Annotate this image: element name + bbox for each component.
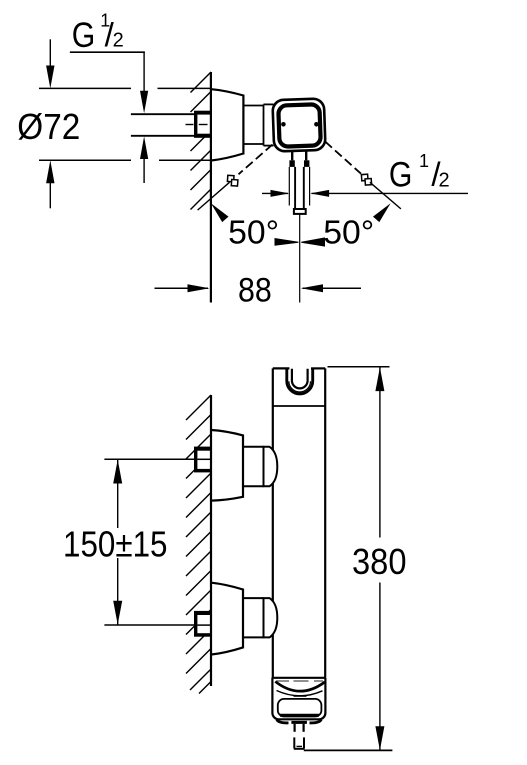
right angle arrowhead <box>373 203 391 222</box>
left hose connector symbol <box>227 175 238 186</box>
cap inner shell <box>278 699 322 717</box>
right swivel dashed line <box>325 142 361 174</box>
body neck (top view) <box>243 104 273 145</box>
upper connection cylinder <box>243 447 264 487</box>
lower union nut (side view) <box>194 611 211 637</box>
wall line (side view) <box>210 395 212 686</box>
svg-text:50°: 50° <box>228 214 279 251</box>
svg-text:G: G <box>389 156 413 195</box>
cap lower thin curve <box>277 691 323 696</box>
cap feet <box>277 720 289 723</box>
right horizontal arrow / G1/2 leader line <box>312 192 469 194</box>
left swivel dashed line <box>239 145 273 175</box>
svg-text:Ø72: Ø72 <box>17 106 80 147</box>
150 dimension vertical with arrows <box>117 459 119 528</box>
dia-72 arrows <box>49 39 51 68</box>
pipe lower dim arrow <box>140 136 148 159</box>
svg-text:G: G <box>72 16 96 55</box>
upper union nut (side view) <box>194 447 211 473</box>
left 50-deg horizontal arrow to lever <box>262 192 288 194</box>
svg-text:1: 1 <box>419 151 429 171</box>
lever centre extension line <box>299 214 301 303</box>
lever shaft lines <box>295 167 304 209</box>
cap top line (body bottom) <box>272 677 326 679</box>
handle head inner ring <box>278 104 321 147</box>
cap smile curve <box>275 682 325 692</box>
svg-text:150±15: 150±15 <box>63 523 168 564</box>
wall hatching (side view) <box>186 395 211 694</box>
handle head outer (top view, rounded square) <box>272 98 325 151</box>
lower connection dome <box>264 598 278 637</box>
cap small line <box>294 695 307 697</box>
connection centre lines <box>197 458 210 460</box>
dia-72 extension lines <box>39 88 211 160</box>
svg-text:2: 2 <box>113 30 124 52</box>
svg-text:380: 380 <box>352 541 407 582</box>
head pivot dots <box>281 122 286 127</box>
body separation line <box>273 405 325 407</box>
lever end cap <box>294 209 306 214</box>
right hose connector symbol <box>361 174 371 185</box>
svg-text:88: 88 <box>238 272 272 310</box>
escutcheon cone (top view) <box>211 89 243 160</box>
outlet cap <box>272 678 325 720</box>
lower connection cylinder <box>243 598 264 637</box>
body outline <box>273 368 325 677</box>
supply pipe (top view) <box>131 114 194 136</box>
dimension 88 <box>155 287 209 289</box>
left angle arrowhead (at wall) <box>211 203 229 222</box>
left swivel solid end segment <box>198 182 230 210</box>
svg-text:2: 2 <box>439 170 450 192</box>
G1/2 leader underline and drop arrow <box>70 51 145 53</box>
upper escutcheon (side view) <box>211 430 243 501</box>
wall hatching (top view) <box>191 72 212 210</box>
380 dimension vertical with arrows <box>379 367 381 537</box>
shower hose holder clip <box>287 369 313 394</box>
dimension 380 extension lines <box>328 366 390 368</box>
small centre wedge arrows <box>275 238 299 246</box>
svg-text:50°: 50° <box>323 214 374 251</box>
wall union nut (top view) <box>194 111 211 138</box>
wall line (top view) <box>210 72 212 303</box>
outlet nipple <box>291 721 307 724</box>
nut centre line (dash-dot) <box>186 124 208 126</box>
lower escutcheon (side view) <box>211 583 243 655</box>
dimension 150+-15 lines <box>104 458 194 460</box>
lever stub below head <box>292 151 306 161</box>
cap grey dashes <box>277 680 324 682</box>
right swivel solid end segment <box>370 182 401 209</box>
upper connection dome <box>264 447 278 487</box>
lever collar blocks <box>289 160 294 167</box>
lever outer silhouette lines <box>289 167 309 206</box>
